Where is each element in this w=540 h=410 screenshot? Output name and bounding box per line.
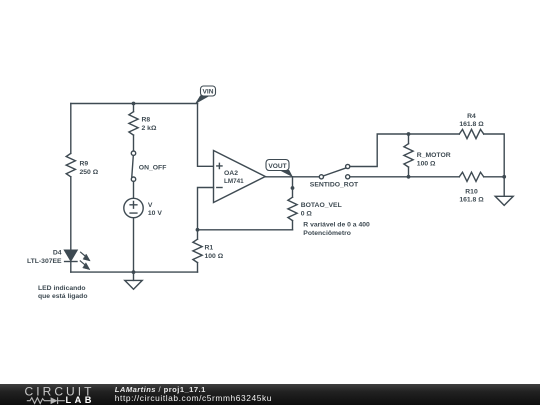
ground left <box>125 272 142 289</box>
footer credit text <box>115 385 272 403</box>
svg-text:ON_OFF: ON_OFF <box>139 165 167 172</box>
wire output node down to potentiometer <box>292 177 294 188</box>
potentiometer BOTAO_VEL <box>288 188 297 230</box>
svg-text:250 Ω: 250 Ω <box>80 169 99 176</box>
svg-text:SENTIDO_ROT: SENTIDO_ROT <box>310 182 359 189</box>
svg-text:R_MOTOR: R_MOTOR <box>417 152 451 159</box>
wire R10 to right rail <box>484 176 505 178</box>
svg-text:LAB: LAB <box>66 395 95 405</box>
svg-text:R variável de 0 a 400: R variável de 0 a 400 <box>303 221 370 228</box>
wire R4 to right rail <box>484 134 505 196</box>
svg-text:que está ligado: que está ligado <box>38 293 87 300</box>
wire feedback node to potentiometer <box>198 229 293 231</box>
wire source to bottom rail <box>133 218 135 272</box>
svg-text:R9: R9 <box>80 161 89 168</box>
svg-text:R10: R10 <box>465 188 478 195</box>
svg-text:LM741: LM741 <box>224 178 244 185</box>
wire left branch down to LED <box>70 104 72 154</box>
resistor R8 <box>129 112 138 135</box>
svg-text:R4: R4 <box>467 113 476 120</box>
wire LED to bottom rail <box>70 262 72 273</box>
svg-text:100 Ω: 100 Ω <box>417 160 436 167</box>
svg-text:161.8 Ω: 161.8 Ω <box>459 197 484 204</box>
wire R8 to switch <box>133 135 135 151</box>
junction feedback node R1 <box>196 228 200 232</box>
svg-text:LTL-307EE: LTL-307EE <box>27 258 62 265</box>
resistor R10 <box>459 172 483 181</box>
wire switch to source <box>133 181 135 198</box>
wire VIN down to op-amp + input <box>198 104 214 167</box>
svg-text:100 Ω: 100 Ω <box>205 253 224 260</box>
LED D4 <box>65 250 91 270</box>
svg-text:Potenciômetro: Potenciômetro <box>303 230 351 237</box>
svg-text:LED indicando: LED indicando <box>38 285 86 292</box>
svg-text:http://circuitlab.com/c5rmmh63: http://circuitlab.com/c5rmmh63245ku <box>115 393 272 403</box>
wire op-amp - input feedback <box>198 188 214 230</box>
node flag VIN <box>195 86 216 104</box>
logo CIRCUIT LAB <box>25 385 95 405</box>
resistor R9 <box>66 153 75 176</box>
resistor R_MOTOR <box>404 134 413 177</box>
wire R8 branch <box>133 104 135 112</box>
svg-text:BOTAO_VEL: BOTAO_VEL <box>301 202 342 209</box>
node flag VOUT <box>266 160 293 178</box>
svg-text:OA2: OA2 <box>224 170 238 177</box>
svg-text:R8: R8 <box>142 116 151 123</box>
op-amp U OA2 <box>214 151 266 203</box>
switch ON_OFF <box>131 151 135 181</box>
svg-text:R1: R1 <box>205 245 214 252</box>
wire op-amp output <box>265 176 319 178</box>
junction top rail / R8 <box>132 102 136 106</box>
wire top throw to R4 rail <box>350 134 460 167</box>
wire R1 stubs <box>197 230 199 272</box>
svg-text:D4: D4 <box>53 250 62 257</box>
wire top rail VIN net <box>71 103 198 105</box>
ground right <box>495 196 513 205</box>
svg-text:0 Ω: 0 Ω <box>301 211 313 218</box>
svg-text:10 V: 10 V <box>148 210 162 217</box>
junction R4 rail / R_MOTOR <box>407 132 411 136</box>
wire bottom throw to R10 <box>350 176 460 178</box>
wire bottom rail <box>71 271 198 273</box>
switch SENTIDO_ROT <box>319 164 350 179</box>
junction bottom rail / ground <box>132 270 136 274</box>
junction R10 rail / right ground <box>502 175 506 179</box>
resistor R4 <box>459 129 483 138</box>
junction R10 rail / R_MOTOR <box>407 175 411 179</box>
svg-text:161.8 Ω: 161.8 Ω <box>459 121 484 128</box>
voltage source V <box>124 198 143 217</box>
junction VOUT / BOTAO_VEL <box>291 186 295 190</box>
svg-text:VIN: VIN <box>203 89 214 96</box>
svg-text:VOUT: VOUT <box>268 163 286 170</box>
resistor R1 <box>193 239 202 262</box>
svg-text:2 kΩ: 2 kΩ <box>142 125 157 132</box>
svg-text:V: V <box>148 202 153 209</box>
wire R9 to LED <box>70 177 72 250</box>
